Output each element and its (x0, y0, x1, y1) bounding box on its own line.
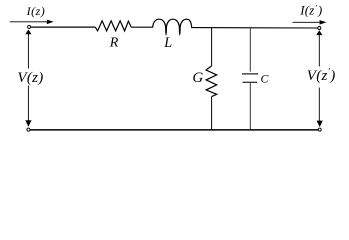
voltage arrow V(z') right (316, 30, 323, 127)
capacitor C (242, 74, 258, 82)
node terminal bottom-left (27, 128, 30, 131)
svg-text:L: L (163, 35, 172, 51)
voltage arrow V(z) left (25, 30, 31, 127)
svg-text:V(z′): V(z′) (307, 66, 336, 84)
resistor G (206, 66, 217, 97)
wire G branch bottom (211, 97, 213, 130)
svg-text:V(z): V(z) (17, 70, 43, 86)
current arrow I(z) (10, 20, 54, 25)
svg-text:I(z): I(z) (26, 4, 46, 18)
wire C branch top (249, 28, 251, 72)
current arrow I(z') (293, 20, 327, 25)
node terminal top-left (28, 25, 31, 28)
wire G branch top (211, 28, 213, 66)
svg-text:G: G (192, 70, 203, 86)
wire C branch bottom (249, 83, 251, 130)
node terminal top-right (318, 27, 321, 30)
node terminal bottom-right (318, 128, 321, 131)
svg-text:C: C (261, 72, 269, 86)
svg-text:I(z′): I(z′) (299, 3, 322, 18)
wire between R and L (131, 26, 153, 28)
resistor R (95, 21, 131, 31)
inductor L (153, 19, 192, 34)
svg-text:R: R (109, 36, 119, 51)
wire top rail left segment (31, 26, 96, 28)
wire top rail right segment (191, 27, 318, 29)
bottom rail wire (30, 129, 318, 131)
